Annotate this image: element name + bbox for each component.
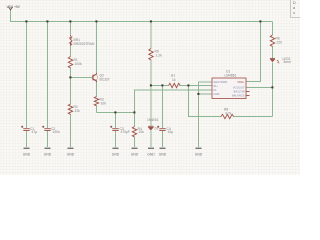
svg-text:SHUTDWN: SHUTDWN [214,80,228,84]
svg-text:100k: 100k [75,62,83,66]
svg-text:GND: GND [112,153,120,157]
svg-text:VO1/OUT: VO1/OUT [233,86,245,90]
svg-text:o: o [293,11,295,15]
svg-text:1.2k: 1.2k [156,54,163,58]
svg-text:IN-: IN- [214,88,218,92]
svg-text:GND: GND [44,153,52,157]
svg-text:BA11738: BA11738 [234,90,245,94]
svg-text:BR2032TRAN: BR2032TRAN [74,42,96,46]
svg-text:22k: 22k [75,109,81,113]
svg-text:1N4001: 1N4001 [147,118,159,122]
svg-text:D1: D1 [155,126,159,130]
svg-text:10µ: 10µ [168,130,174,134]
svg-text:GND: GND [23,153,31,157]
svg-text:100: 100 [101,102,107,106]
svg-text:GND: GND [67,153,75,157]
svg-text:10k: 10k [139,130,145,134]
svg-text:LM4861: LM4861 [225,74,237,78]
svg-text:47µ: 47µ [32,130,38,134]
svg-text:VDC +5V: VDC +5V [7,5,21,9]
svg-text:GND: GND [214,92,220,96]
svg-text:GND: GND [159,153,167,157]
svg-text:220: 220 [277,41,283,45]
svg-text:a: a [293,6,295,10]
svg-text:BC337: BC337 [100,78,110,82]
svg-text:GND: GND [147,153,155,157]
svg-text:470µF: 470µF [121,130,130,134]
svg-text:GND: GND [131,153,139,157]
svg-text:5mm: 5mm [284,60,292,64]
svg-text:D: D [293,1,296,5]
svg-text:GND: GND [195,153,203,157]
svg-text:BALANCE: BALANCE [232,94,245,98]
svg-text:IN+: IN+ [214,84,219,88]
svg-text:100n: 100n [53,130,61,134]
svg-text:VDD+: VDD+ [237,80,245,84]
svg-text:1k: 1k [172,78,176,82]
svg-text:4.7k: 4.7k [225,111,232,115]
